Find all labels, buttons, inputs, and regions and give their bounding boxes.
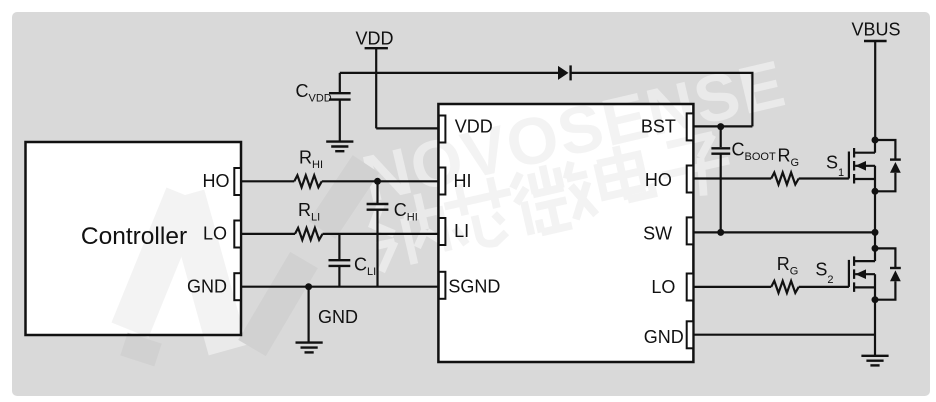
wire GND stub down — [308, 287, 310, 343]
capacitor C_LI — [329, 260, 351, 266]
IC pin GND (right) — [687, 321, 694, 348]
node S1 source dot — [872, 188, 879, 195]
ground symbol (controller GND) — [296, 343, 323, 353]
capacitor C_BOOT — [711, 148, 730, 153]
watermark dark pass (on white boxes) — [130, 46, 792, 350]
IC pin HO (right) — [687, 166, 694, 193]
resistor R_HI — [294, 175, 322, 187]
wire HO to R_HI — [241, 180, 294, 182]
S2 channel dashes — [853, 256, 855, 292]
VBUS symbol bar — [864, 40, 887, 42]
S2 source stub — [854, 286, 875, 288]
node S2 drain dot — [872, 245, 879, 252]
VDD symbol bar — [365, 47, 388, 49]
svg-text:BST: BST — [641, 116, 676, 136]
S1 drain stub — [854, 140, 875, 153]
wire R_HI to HI pin — [322, 180, 439, 182]
svg-text:SGND: SGND — [448, 277, 500, 297]
wire VDD to IC VDD pin — [376, 127, 439, 129]
wire VBUS down to S1 drain — [874, 41, 876, 140]
S1 body stub and arrow — [855, 166, 875, 192]
ground symbol (C_VDD) — [326, 142, 353, 152]
transistor Q S1 — [849, 140, 901, 191]
IC pin SGND (left) — [439, 272, 446, 299]
S1 source stub — [854, 178, 875, 180]
capacitor C_LI wire bottom — [338, 266, 340, 287]
S2 gate bar — [848, 260, 850, 287]
IC box U1 — [438, 104, 693, 362]
svg-text:LO: LO — [203, 224, 227, 244]
resistor R_G2 — [771, 281, 799, 293]
node SW junction dot (rail) — [872, 229, 879, 236]
capacitor C_HI wire top — [376, 181, 378, 204]
svg-text:HO: HO — [645, 170, 672, 190]
controller pin LO — [234, 221, 241, 248]
svg-text:VDD: VDD — [455, 116, 493, 136]
IC box fill — [438, 104, 693, 362]
IC pin LI (left) — [439, 218, 446, 245]
S2 body stub and arrow — [855, 274, 875, 300]
S1 channel dashes — [853, 148, 855, 184]
node S2 source dot — [872, 296, 879, 303]
svg-text:HO: HO — [203, 171, 230, 191]
wire S1 source to SW — [874, 191, 876, 232]
wire HO pin to R_G1 — [693, 177, 771, 179]
node S1 drain dot — [872, 137, 879, 144]
node GND junction dot — [305, 283, 312, 290]
node SW junction dot (C_BOOT) — [717, 229, 724, 236]
wire GND pin to rail — [693, 334, 875, 336]
wire SW pin to rail — [693, 231, 875, 233]
big N logo watermark dark facets — [124, 164, 366, 355]
wire S2 source down to ground — [874, 300, 876, 356]
S2 drain stub — [854, 248, 875, 261]
wire controller GND to SGND pin — [241, 286, 439, 288]
svg-text:GND: GND — [187, 276, 227, 296]
watermark light pass (on gray panel) — [130, 46, 792, 350]
wire LO pin to R_G2 — [693, 286, 771, 288]
capacitor C_BOOT wire bottom — [720, 154, 722, 233]
IC pin VDD (left) — [439, 116, 446, 143]
wire R_G1 to S1 gate — [799, 177, 849, 179]
svg-text:VDD: VDD — [355, 28, 393, 48]
wire R_LI to LI pin — [323, 233, 439, 235]
capacitor C_BOOT wire top — [720, 126, 722, 147]
svg-text:LI: LI — [454, 221, 469, 241]
S1 gate bar — [848, 152, 850, 179]
S1 body diode — [875, 140, 895, 191]
controller box — [26, 142, 242, 335]
transistor Q S2 — [849, 248, 901, 299]
capacitor C_HI wire bottom — [376, 210, 378, 287]
IC pin SW (right) — [687, 217, 694, 244]
svg-text:VBUS: VBUS — [851, 20, 900, 40]
resistor R_G1 — [771, 173, 799, 185]
capacitor C_VDD — [329, 93, 351, 99]
IC pin LO (right) — [687, 274, 694, 301]
controller box fill — [26, 142, 242, 335]
IC pin BST (right) — [687, 113, 694, 140]
diode D1 cathode bar — [569, 65, 571, 80]
capacitor C_LI wire top — [338, 234, 340, 260]
svg-text:SW: SW — [643, 223, 672, 243]
S2 body diode — [875, 248, 895, 299]
svg-text:Controller: Controller — [81, 223, 187, 250]
capacitor C_HI — [367, 204, 389, 210]
node BST junction dot — [717, 123, 724, 130]
wire LO to R_LI — [241, 233, 295, 235]
capacitor C_VDD wire top — [339, 73, 341, 92]
controller pin GND — [234, 273, 241, 300]
wire BST pin to corner — [693, 125, 752, 127]
capacitor C_VDD wire bottom — [339, 100, 341, 142]
ground symbol (power stage) — [861, 356, 888, 366]
node HI junction dot — [374, 178, 381, 185]
svg-text:LO: LO — [651, 277, 675, 297]
IC pin HI (left) — [439, 168, 446, 195]
wire top rail left segment — [340, 72, 558, 74]
wire SW to S2 drain — [874, 232, 876, 248]
wire VDD down — [375, 48, 377, 128]
svg-text:GND: GND — [318, 307, 358, 327]
diode D1 — [558, 66, 569, 80]
svg-text:HI: HI — [454, 171, 472, 191]
wire R_G2 to S2 gate — [799, 286, 849, 288]
wire top rail right segment — [571, 73, 753, 127]
resistor R_LI — [295, 228, 323, 240]
svg-text:GND: GND — [644, 327, 684, 347]
controller pin HO — [234, 168, 241, 195]
